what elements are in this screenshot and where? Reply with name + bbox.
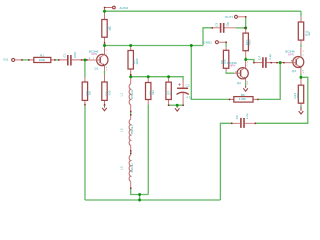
inductor L3 xyxy=(119,153,133,188)
wire L3 bottom to R6 riser xyxy=(131,188,149,194)
pin end dots xyxy=(21,7,284,189)
pin OUT1 xyxy=(235,15,246,18)
svg-text:332: 332 xyxy=(151,90,155,95)
resistor R6 xyxy=(146,77,156,105)
wire GND1 to R8 xyxy=(225,42,227,47)
wire drop to feedback resistor xyxy=(191,46,229,100)
wire L2-L3 gap xyxy=(130,151,132,154)
svg-text:3: 3 xyxy=(303,73,304,75)
node C2 ground junction xyxy=(176,104,179,107)
svg-text:NPN: NPN xyxy=(91,52,97,56)
wire Q2 emitter gap xyxy=(245,82,247,85)
svg-text:ALIM1: ALIM1 xyxy=(119,6,128,10)
svg-text:C2: C2 xyxy=(186,83,190,87)
wire corner up to C3 xyxy=(203,28,212,46)
svg-text:L1: L1 xyxy=(119,93,123,97)
node Q3 base junction xyxy=(279,61,282,64)
svg-text:C4: C4 xyxy=(258,56,262,60)
svg-text:L2: L2 xyxy=(119,128,123,132)
wire Q3 emitter loop to C6 xyxy=(255,77,307,123)
wire L1-L2 gap xyxy=(130,111,132,114)
svg-text:49k9: 49k9 xyxy=(248,39,252,46)
svg-text:10k: 10k xyxy=(223,59,227,64)
svg-text:100n: 100n xyxy=(73,51,77,58)
capacitor C6 xyxy=(232,113,256,128)
inductor L1 xyxy=(119,77,133,112)
transistor Q3 xyxy=(284,47,305,74)
svg-text:3: 3 xyxy=(106,69,107,71)
resistor R12 xyxy=(293,78,304,105)
ground Q2 xyxy=(243,86,248,92)
svg-text:Q3: Q3 xyxy=(292,69,296,73)
svg-text:OUT1: OUT1 xyxy=(225,15,234,19)
wire drop to bottom rail xyxy=(139,195,141,201)
node bottom rail junction xyxy=(138,199,141,202)
svg-text:4.7µ: 4.7µ xyxy=(186,95,192,99)
resistor R9 feedback xyxy=(230,93,258,102)
resistor R2 xyxy=(102,12,112,46)
svg-text:4k99: 4k99 xyxy=(135,58,139,65)
wire node A drop to R3 xyxy=(84,60,86,78)
svg-text:NPN: NPN xyxy=(230,64,236,68)
svg-text:330: 330 xyxy=(107,90,111,95)
resistor R5 xyxy=(128,46,139,77)
wire Q1 collector row xyxy=(105,45,204,47)
svg-text:100k: 100k xyxy=(39,58,46,62)
capacitor C2 polarized xyxy=(177,81,193,106)
resistor R8 xyxy=(220,47,229,72)
svg-text:IN1: IN1 xyxy=(3,57,8,61)
wire row2 L1 to C2 xyxy=(131,77,183,81)
svg-text:C6: C6 xyxy=(235,115,239,119)
wire C6 corner riser xyxy=(220,123,231,200)
svg-text:2: 2 xyxy=(106,50,107,52)
wire Q3 emitter gap xyxy=(300,74,302,78)
resistor R7 xyxy=(166,77,173,106)
wire Q1 emitter gap xyxy=(104,71,106,75)
node Q1 collector junction xyxy=(103,44,106,47)
resistor R1 xyxy=(29,54,55,63)
svg-text:2: 2 xyxy=(247,62,248,64)
svg-text:10µ: 10µ xyxy=(226,22,230,27)
node R5 top junction xyxy=(129,44,132,47)
capacitor C1 xyxy=(59,51,87,65)
ground C2/R7 node xyxy=(175,107,180,111)
ground R4 xyxy=(102,106,107,111)
pin ALIM1 xyxy=(105,6,116,12)
pin GND1 xyxy=(215,41,226,44)
svg-text:GND1: GND1 xyxy=(203,40,212,44)
wire left riser to R3 xyxy=(84,105,86,200)
wire rail corner down to R11 xyxy=(300,11,302,16)
resistor R10 xyxy=(243,30,252,57)
inductor L2 xyxy=(119,115,133,151)
svg-text:2: 2 xyxy=(303,51,304,53)
ground R12 xyxy=(299,107,304,114)
svg-text:C3: C3 xyxy=(215,23,219,27)
node ALIM1 junction xyxy=(103,10,106,13)
svg-text:L3: L3 xyxy=(119,166,123,170)
svg-text:150mH: 150mH xyxy=(130,125,134,134)
svg-text:1: 1 xyxy=(235,71,236,73)
svg-text:2.2µ: 2.2µ xyxy=(268,54,272,60)
svg-text:1: 1 xyxy=(93,58,94,60)
capacitor C4 xyxy=(254,54,284,68)
svg-text:1: 1 xyxy=(291,60,292,62)
wire R6 bottom riser xyxy=(147,104,149,194)
wire R1 to C1 xyxy=(55,59,59,61)
wire C2 gnd tap xyxy=(176,105,178,107)
wire feedback right to Q3 base column xyxy=(258,63,280,100)
node R6 top junction xyxy=(147,75,150,78)
capacitor C3 xyxy=(212,22,236,33)
svg-text:Q1: Q1 xyxy=(94,66,98,70)
node L1 top junction xyxy=(129,75,132,78)
svg-text:150: 150 xyxy=(296,93,300,98)
wire R12 bottom gap xyxy=(300,106,302,108)
svg-text:1k5: 1k5 xyxy=(88,90,92,95)
svg-text:150mH: 150mH xyxy=(130,90,134,99)
svg-text:150mH: 150mH xyxy=(130,163,134,172)
wire R8 bottom to Q2 base xyxy=(226,72,234,73)
node R7 top junction xyxy=(167,75,170,78)
svg-text:2.2µ: 2.2µ xyxy=(245,113,249,119)
wire OUT1 drop to C3 node xyxy=(245,17,247,30)
wire Q2 collector node jog to C4 xyxy=(246,60,254,63)
svg-text:3: 3 xyxy=(247,84,248,86)
wire top supply rail xyxy=(105,10,302,12)
pin IN1 xyxy=(12,58,22,61)
node base Q1 / R3 junction xyxy=(83,58,86,61)
node Q2 collector junction xyxy=(244,58,247,61)
svg-text:15k: 15k xyxy=(108,26,112,31)
svg-text:C1: C1 xyxy=(62,53,66,57)
svg-text:NPN: NPN xyxy=(288,52,294,56)
transistor Q1 xyxy=(87,46,108,72)
node feedback drop junction xyxy=(190,44,193,47)
svg-text:Q2: Q2 xyxy=(237,81,241,85)
node Q3 emitter junction xyxy=(299,76,302,79)
wire IN1 to R1 xyxy=(22,59,29,61)
resistor R3 xyxy=(82,78,92,105)
wire bottom rail xyxy=(85,199,220,201)
resistor R11 xyxy=(298,16,311,44)
wire R4 bottom gap xyxy=(104,105,106,106)
svg-text:R9: R9 xyxy=(241,93,245,97)
wire R7 to C2 bottom row xyxy=(169,104,184,106)
wire R11 bottom gap xyxy=(300,44,302,47)
transistor Q2 xyxy=(227,60,248,86)
wire C3 to R10 node xyxy=(236,27,246,29)
node L3 bottom junction xyxy=(138,193,141,196)
node OUT1/C3 junction xyxy=(244,26,247,29)
wire R10 bottom gap xyxy=(245,57,247,60)
svg-text:4k7: 4k7 xyxy=(307,31,311,36)
svg-text:4.99k: 4.99k xyxy=(239,97,247,101)
resistor R4 xyxy=(102,74,112,105)
